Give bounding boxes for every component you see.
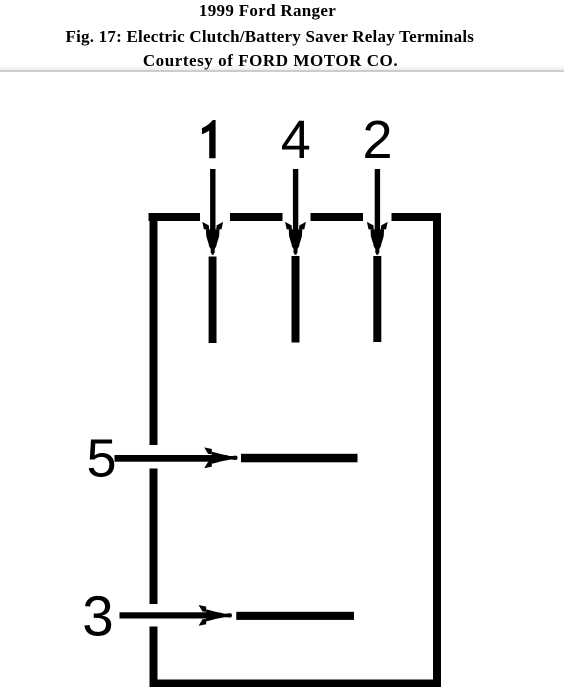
terminal 5 blade xyxy=(241,454,358,463)
arrow 1 head barbs xyxy=(202,222,209,230)
svg-text:3: 3 xyxy=(82,585,113,648)
arrow 4 head xyxy=(289,229,303,254)
relay body outline: left edge middle part xyxy=(150,469,158,605)
header separator shading xyxy=(0,64,564,70)
title line 2 xyxy=(1,28,538,45)
svg-text:5: 5 xyxy=(86,429,116,489)
relay body outline: top edge dash between terminals 1 and 4 xyxy=(230,213,283,221)
relay body outline: left edge upper part xyxy=(150,213,158,445)
arrow 5 head xyxy=(212,452,238,464)
arrow 1 shaft xyxy=(210,169,215,233)
arrow 3 head xyxy=(206,609,232,621)
arrow 4 head barbs xyxy=(285,222,292,230)
title line 3 xyxy=(2,52,539,69)
arrow 2 head barbs xyxy=(367,222,374,230)
arrow 2 shaft xyxy=(375,169,380,233)
arrow 5 shaft xyxy=(115,455,214,462)
terminal 1 blade xyxy=(209,257,217,344)
terminal 4 blade xyxy=(292,256,300,343)
relay body outline: top edge dash between terminals 4 and 2 xyxy=(311,213,364,221)
relay body outline: top edge segment (right corner) xyxy=(392,213,442,221)
title line 1 xyxy=(0,2,536,19)
terminal 2 blade xyxy=(373,256,381,342)
arrow 4 shaft xyxy=(293,169,298,233)
arrow 5 head barbs xyxy=(204,447,212,454)
svg-text:2: 2 xyxy=(362,110,392,170)
svg-text:4: 4 xyxy=(281,110,311,170)
relay body outline: left edge lower part xyxy=(150,627,158,688)
relay body outline: bottom edge xyxy=(150,680,442,688)
terminal label 1 (drawn path, Arial-style footless 1) xyxy=(202,120,216,158)
relay body outline: right edge xyxy=(433,213,441,687)
arrow 1 head xyxy=(206,229,220,254)
terminal 3 blade xyxy=(236,612,354,620)
arrow 2 head xyxy=(371,229,385,254)
header separator line xyxy=(0,70,564,72)
relay body outline: top edge segment (left corner) xyxy=(149,213,201,221)
arrow 3 shaft xyxy=(120,612,208,618)
arrow 3 head barbs xyxy=(199,605,207,612)
